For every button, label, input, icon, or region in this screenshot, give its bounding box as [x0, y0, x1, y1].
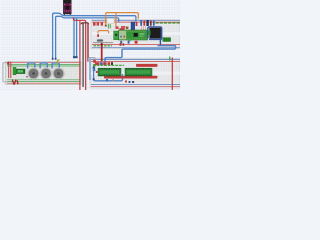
wire orange O3 jumper on BB1 [98, 31, 109, 34]
wire green G1 along BB1 top rail [156, 22, 181, 24]
wire blue bus A [53, 13, 136, 59]
green PCB module U1 [119, 30, 148, 40]
knob P3 [27, 67, 40, 80]
red/blue parts on BB2 top row [95, 62, 100, 65]
wire red R7 long on BB2 [136, 64, 158, 67]
wire red R9 right vertical [171, 58, 173, 91]
IC U6 (right DIP) on BB2 [125, 68, 152, 76]
red bits before loop corner [120, 43, 122, 46]
knob P4 [40, 67, 53, 80]
wire red R10 on BB3 [8, 62, 10, 79]
breadboard BB3 (left, small) [6, 62, 82, 85]
wire green G4 on BB2 [93, 64, 124, 66]
wire blue drop C [73, 17, 75, 57]
white component P1 on BB1 [107, 17, 114, 23]
black module U2 with blue loop [148, 27, 162, 46]
IC U4 (left DIP) on BB2 [98, 68, 121, 76]
green component U3 [163, 38, 171, 42]
wire orange O2 [115, 13, 117, 27]
wire gray loop W2 around BB3 left [3, 63, 8, 82]
red strip above PCB [119, 28, 124, 30]
comps above PCB [116, 26, 119, 29]
red jumpers V on BB3 [12, 80, 18, 85]
breadboard BB2 (bottom right) [90, 58, 180, 88]
wire blue bus B [56, 16, 119, 59]
green part U7 on BB3 [16, 69, 25, 74]
breadboard BB1 (top right) [91, 20, 180, 49]
wire red R8 long on BB2 [104, 76, 158, 79]
wire blue drop D [76, 17, 78, 57]
red comps near BB1 top-left rail [93, 23, 96, 26]
wire dark red R4 [87, 23, 89, 61]
green pins on BB1 [108, 24, 110, 28]
wire end caps C/D [73, 56, 78, 58]
resistor R5 on BB1 [97, 39, 103, 41]
orange cap O1 [105, 25, 107, 27]
specks row BB2 bottom [106, 79, 108, 81]
dark pin row BB1 bottom [94, 42, 114, 44]
module pin stubs [64, 14, 70, 16]
green bit below P2 [128, 38, 131, 41]
knob P5 [52, 67, 65, 80]
component stack BB2 left [93, 60, 96, 63]
wire black K1 [81, 23, 88, 24]
wire blue G (BB2 left edge) [89, 59, 91, 80]
canvas background grid [0, 0, 180, 90]
LED D1 red on BB1 [97, 34, 99, 37]
blue arc loops on BB3 [28, 63, 35, 69]
wire green G2 cap [169, 57, 171, 61]
wire blue H loop on BB2 [94, 68, 123, 81]
small parts under U1 on BB1 [120, 41, 122, 44]
component row on BB1 rail [140, 20, 142, 26]
wire orange O1 arc [106, 13, 139, 26]
wire red R11 on BB3 [10, 62, 12, 79]
wire red R6 thick [101, 44, 103, 61]
wire gray loop W1 [89, 58, 96, 61]
purple sensor module U5 [63, 0, 71, 14]
wire red R2 vertical [79, 20, 81, 90]
yellow wire Y1 [57, 60, 59, 64]
wire blue big loop F [105, 46, 176, 66]
wire red R1 [73, 18, 85, 90]
green part Q1 on BB3 [13, 67, 16, 74]
wire end caps A/B [52, 58, 54, 60]
green part QA [114, 31, 119, 40]
capacitor C1 blue on BB1 [131, 22, 135, 30]
wire green G3 BB1 bottom rail [94, 45, 113, 47]
